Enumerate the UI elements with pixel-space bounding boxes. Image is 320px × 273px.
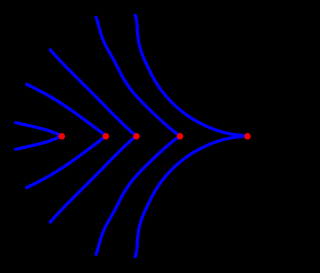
cusp curve 2 lower branch xyxy=(26,136,106,188)
cusp curve 3 lower branch xyxy=(50,136,137,223)
cusp curve 5 lower branch xyxy=(135,136,248,258)
cusp curve 1 upper branch xyxy=(15,122,62,136)
cusp curve 1 lower branch xyxy=(15,136,62,150)
cusp curve 5 upper branch xyxy=(135,14,248,136)
cusp point dot 5 xyxy=(244,133,251,140)
cusp point dot 2 xyxy=(103,133,110,140)
cusp curve 3 upper branch xyxy=(50,49,137,136)
cusp curve 4 upper branch xyxy=(96,16,180,136)
cusp point dot 4 xyxy=(177,133,184,140)
cusp curve 4 lower branch xyxy=(96,136,180,256)
cusp point dot 3 xyxy=(133,133,140,140)
cusp point dot 1 xyxy=(59,133,66,140)
cusp curve 2 upper branch xyxy=(26,84,106,136)
